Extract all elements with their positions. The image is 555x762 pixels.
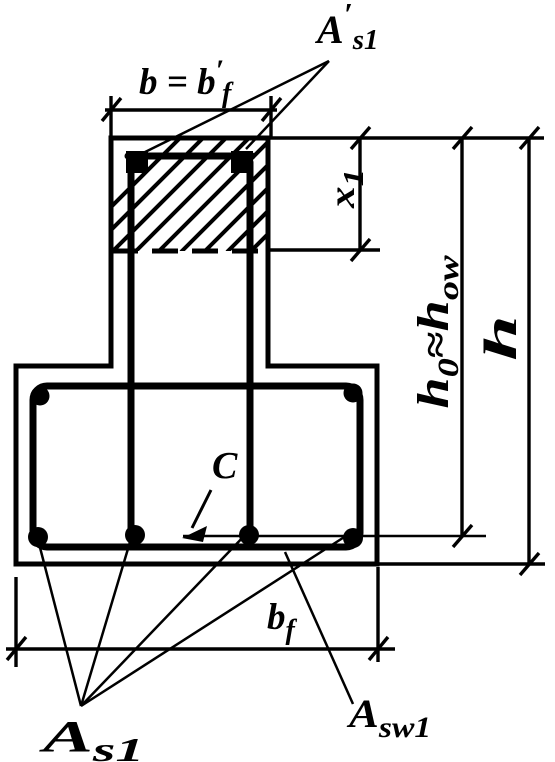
leader fan As1 [36,532,349,706]
dimension bf line [6,567,395,667]
label h [475,315,527,361]
leader lines A's1 [135,61,329,157]
rebar dot bottom mid-left [125,525,145,545]
rebar square top-left [126,151,148,173]
hatch compression zone [66,136,366,252]
dimension x1 line [351,127,370,261]
h lower extension line [377,562,545,566]
rebar dot flange bottom-right [343,528,363,548]
column stirrup [128,156,252,535]
svg-text:h: h [475,315,527,361]
rebar dot flange top-right [344,384,363,403]
leader arrow C [182,490,211,542]
rebar dot flange bottom-left [28,527,48,547]
concrete T-section outline [16,138,377,564]
dimension h0 line [453,127,472,547]
label h0~how [409,254,465,408]
dimension b=b'f line [102,96,281,139]
flange stirrup [33,386,360,547]
h0 lower extension line [183,535,486,538]
rebar dot flange top-left [31,387,50,406]
svg-text:C: C [212,445,238,487]
top extension line [268,136,544,140]
dimension h line [520,127,539,575]
rebar dot bottom mid-right [239,525,259,545]
lower extension line x1 [268,248,380,252]
dashed line bottom of compression zone [112,249,268,254]
leader line Asw1 [285,552,353,704]
rebar square top-right [231,151,253,173]
